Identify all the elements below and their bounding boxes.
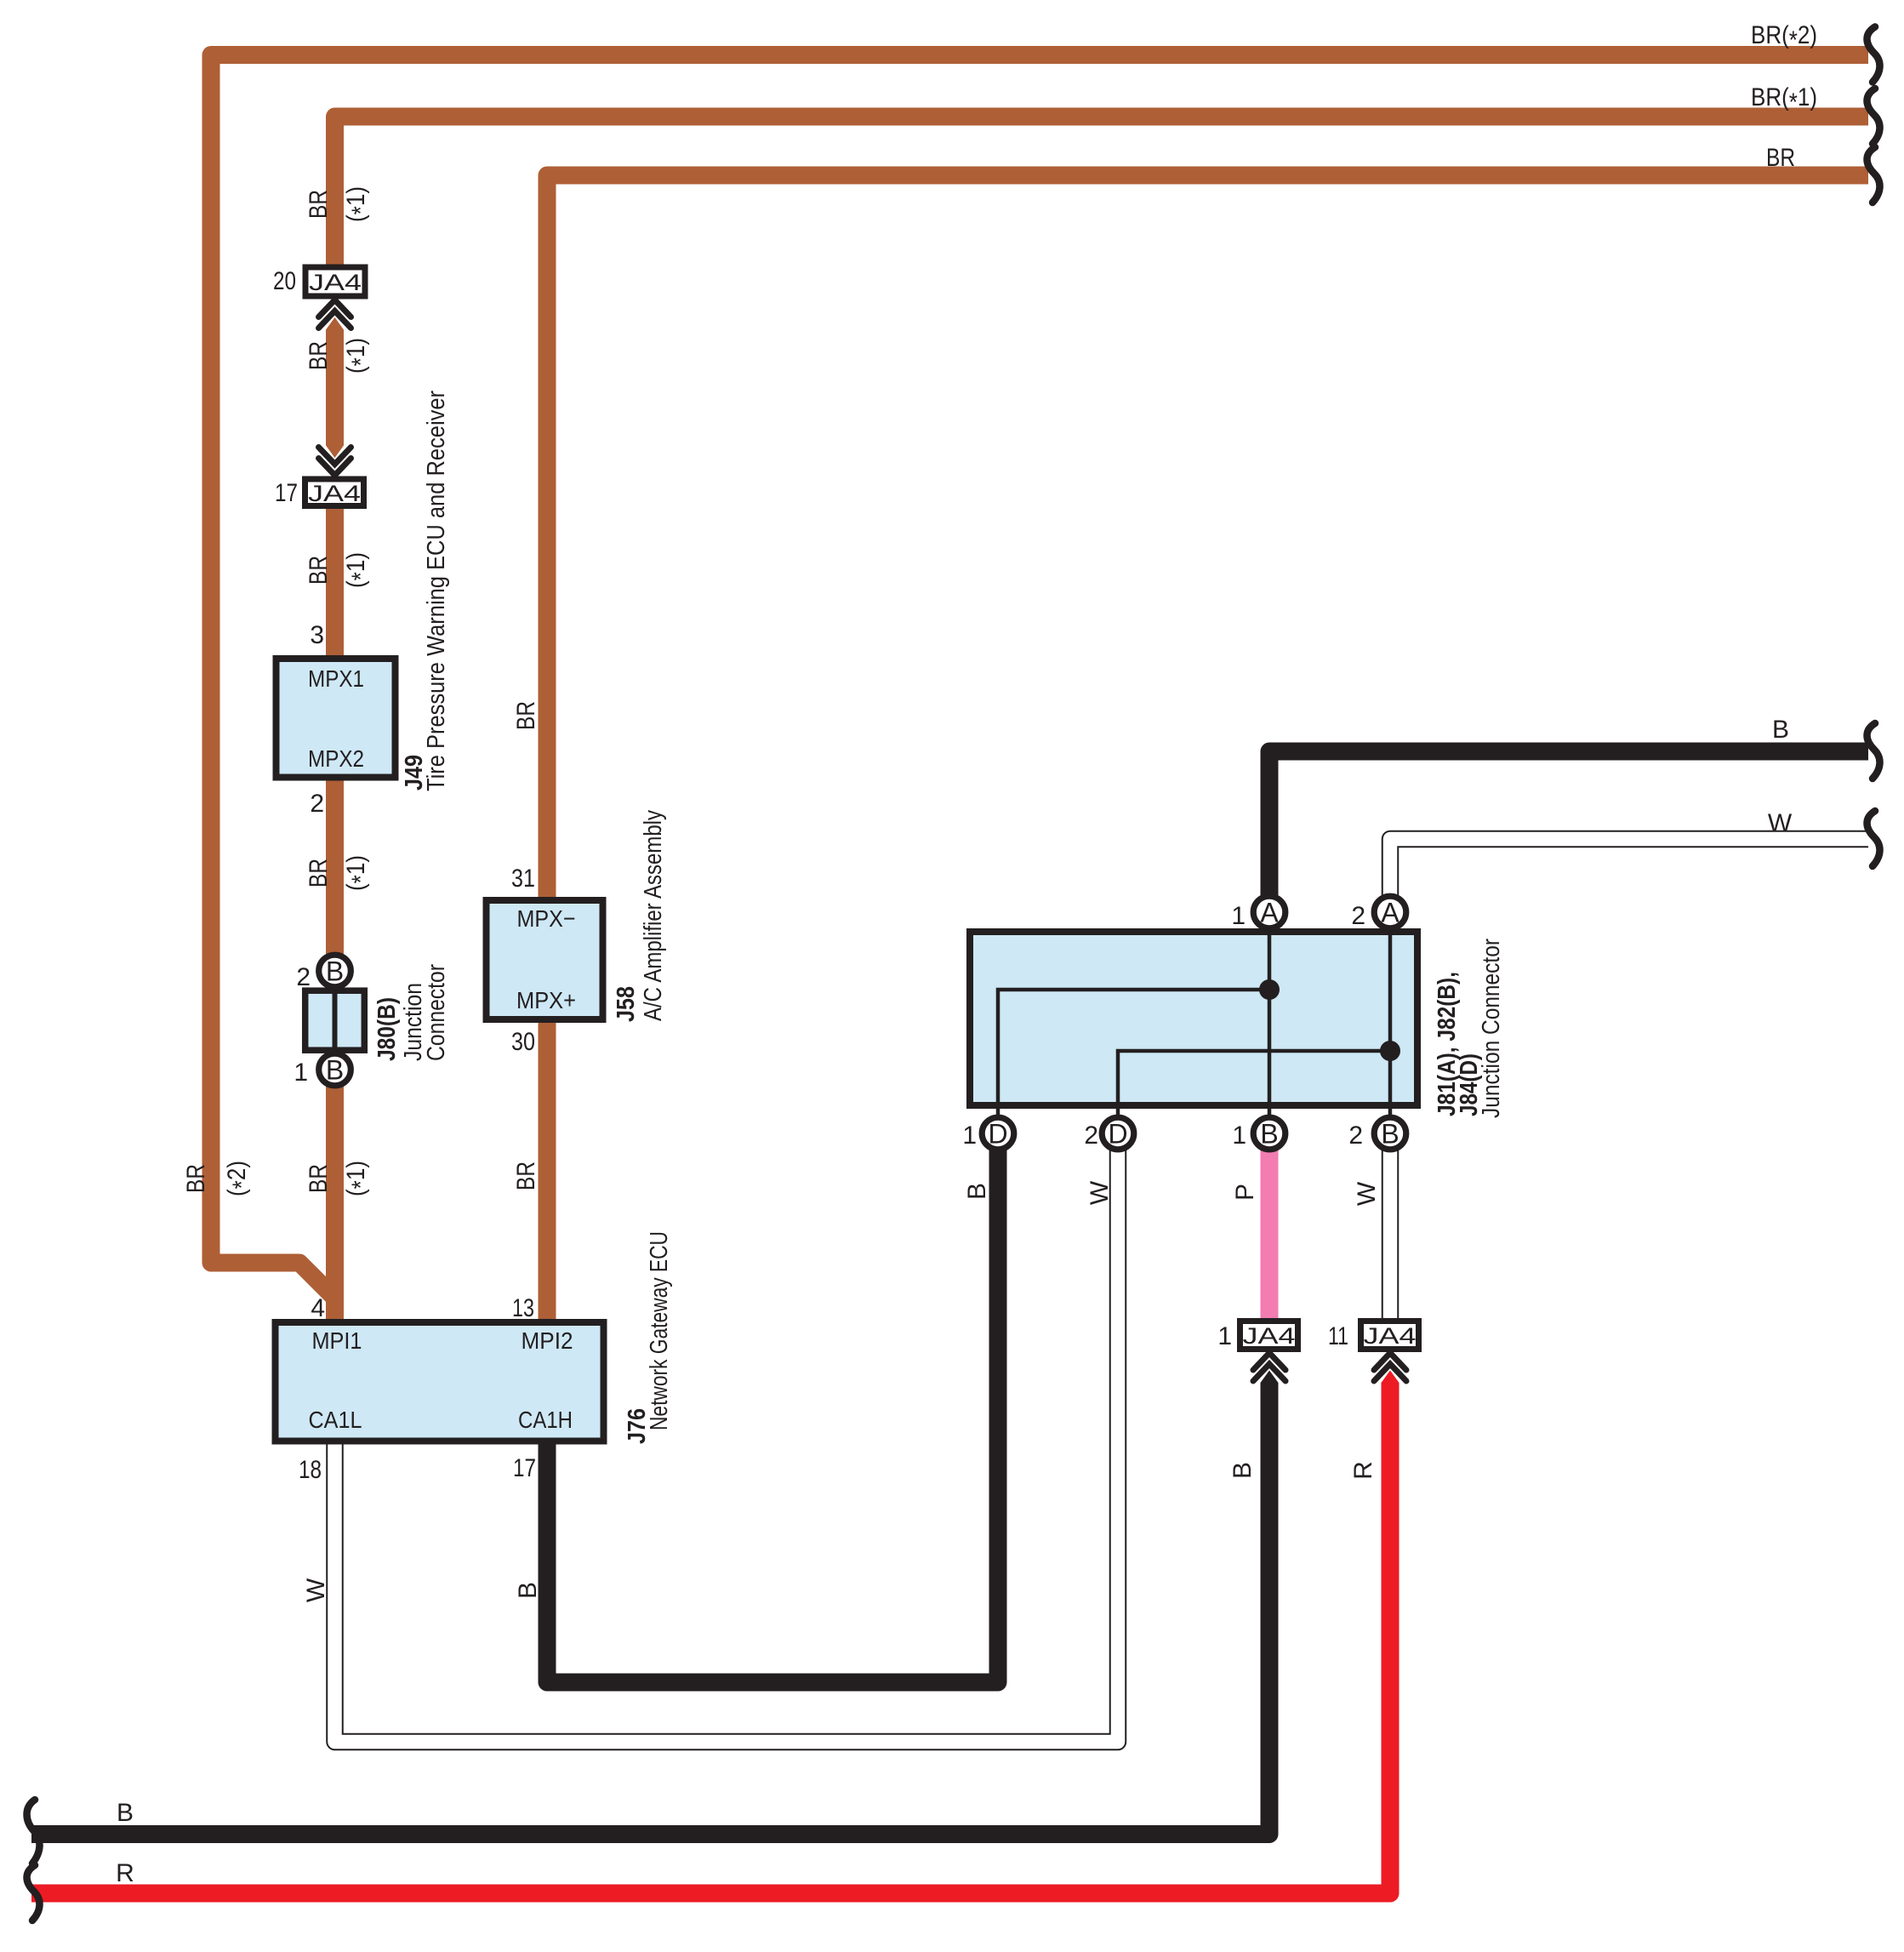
svg-text:20: 20 (273, 267, 296, 295)
svg-text:B: B (1228, 1462, 1257, 1479)
svg-text:J80(B): J80(B) (373, 997, 401, 1061)
svg-text:J58: J58 (613, 986, 640, 1022)
squiggle end B right (1867, 723, 1880, 779)
svg-text:B: B (514, 1582, 542, 1599)
svg-text:Network Gateway ECU: Network Gateway ECU (646, 1231, 673, 1430)
svg-text:2: 2 (310, 790, 324, 818)
svg-text:B: B (117, 1799, 134, 1827)
svg-text:W: W (1353, 1181, 1381, 1206)
svg-text:B: B (963, 1183, 991, 1200)
squiggle end W right (1867, 811, 1880, 866)
terminal 2 B (1374, 1117, 1406, 1150)
ECU J49 Tire Pressure Warning ECU and Receiver (276, 659, 396, 778)
svg-text:Junction Connector: Junction Connector (1478, 939, 1505, 1118)
svg-text:1: 1 (1231, 902, 1246, 930)
wire R bottom from left edge up to 11 JA4 (31, 1382, 1390, 1893)
svg-text:2: 2 (1084, 1122, 1098, 1150)
svg-text:JA4: JA4 (309, 270, 362, 295)
svg-text:A: A (1260, 898, 1279, 928)
terminal 2 D (1102, 1117, 1134, 1150)
connector box 11 JA4 (1361, 1321, 1419, 1350)
svg-text:1: 1 (1232, 1122, 1246, 1150)
terminal 1 B of J80 (319, 1053, 351, 1086)
svg-text:BR: BR (305, 1164, 333, 1193)
svg-text:D: D (988, 1119, 1007, 1150)
connector box 17 JA4 (305, 479, 364, 506)
wire W from junction terminal 2A to right edge (1390, 839, 1868, 902)
connector box 20 JA4 (305, 267, 365, 296)
wire BR(*2) from right edge to Network Gateway ECU pin 4 (211, 55, 1868, 1298)
svg-text:MPX+: MPX+ (516, 987, 576, 1013)
svg-text:JA4: JA4 (1364, 1323, 1417, 1349)
junction connector J81(A) J82(B) J84(D) (970, 931, 1417, 1133)
wire P from junction terminal 1B to 1 JA4 (1261, 1140, 1279, 1320)
svg-text:B: B (1381, 1119, 1399, 1150)
wire B from junction terminal 1A to right edge (1269, 751, 1868, 900)
svg-text:W: W (1768, 809, 1793, 837)
chevron pair above 17 JA4 (319, 446, 351, 477)
svg-text:MPX1: MPX1 (308, 665, 364, 692)
chevron pair below 1 JA4 (1253, 1352, 1285, 1383)
svg-text:CA1H: CA1H (518, 1407, 573, 1433)
svg-text:B: B (326, 1055, 344, 1086)
wire B from CA1H pin 17 to junction terminal 1D (547, 1132, 998, 1682)
ECU J76 Network Gateway ECU (276, 1322, 604, 1441)
svg-text:BR: BR (305, 190, 333, 219)
svg-text:13: 13 (512, 1294, 534, 1322)
svg-text:1: 1 (1217, 1322, 1232, 1350)
svg-text:B: B (1772, 716, 1789, 744)
svg-text:2: 2 (1351, 902, 1365, 930)
svg-text:4: 4 (311, 1294, 325, 1322)
svg-text:31: 31 (511, 865, 535, 893)
svg-text:17: 17 (513, 1454, 536, 1482)
terminal 1 B (1253, 1117, 1285, 1150)
svg-text:MPI1: MPI1 (312, 1327, 362, 1354)
svg-text:17: 17 (275, 479, 298, 507)
squiggle end BR(*1) (1867, 88, 1880, 144)
svg-text:BR: BR (512, 701, 540, 730)
svg-text:Connector: Connector (423, 964, 450, 1061)
squiggle end B bottom left (27, 1800, 40, 1864)
terminal 1 D (982, 1117, 1014, 1150)
svg-text:D: D (1108, 1119, 1127, 1150)
svg-text:MPI2: MPI2 (522, 1327, 573, 1354)
terminal 2 B of J80 (319, 955, 351, 987)
svg-text:1: 1 (962, 1122, 977, 1150)
svg-text:BR: BR (512, 1161, 540, 1190)
svg-text:A: A (1381, 898, 1399, 928)
terminal 2 A (1374, 896, 1406, 928)
svg-text:JA4: JA4 (308, 481, 361, 506)
svg-text:2: 2 (296, 963, 311, 991)
svg-text:18: 18 (299, 1456, 322, 1484)
svg-text:B: B (326, 956, 344, 987)
wire W from junction terminal 2B to 11 JA4 (1382, 1140, 1399, 1320)
svg-text:1: 1 (294, 1059, 308, 1087)
svg-text:B: B (1260, 1119, 1278, 1150)
svg-text:3: 3 (310, 621, 324, 649)
svg-text:MPX−: MPX− (517, 905, 576, 932)
svg-text:R: R (116, 1859, 134, 1887)
svg-text:11: 11 (1328, 1322, 1348, 1350)
svg-text:W: W (1086, 1180, 1114, 1205)
wire BR through J58 to pin 13 (547, 175, 1868, 1321)
svg-text:Tire Pressure Warning ECU and: Tire Pressure Warning ECU and Receiver (423, 391, 450, 791)
squiggle end BR (1867, 147, 1880, 203)
chevron pair below 11 JA4 (1374, 1352, 1406, 1383)
wire BR(*1) vertical trunk through JA4/J49/J80 to pin 4 (335, 117, 1869, 1321)
svg-text:2: 2 (1348, 1122, 1363, 1150)
svg-text:A/C Amplifier Assembly: A/C Amplifier Assembly (640, 810, 667, 1021)
squiggle end R bottom left (27, 1865, 40, 1921)
svg-text:BR: BR (305, 556, 333, 585)
svg-text:BR: BR (182, 1164, 210, 1193)
svg-text:CA1L: CA1L (309, 1407, 362, 1433)
connector box 1 JA4 (1240, 1321, 1298, 1350)
svg-text:BR: BR (305, 859, 333, 888)
terminal 1 A (1253, 896, 1285, 928)
svg-text:BR: BR (305, 341, 333, 370)
chevron pair below 20 JA4 (319, 300, 351, 330)
svg-text:BR: BR (1766, 144, 1795, 172)
svg-text:JA4: JA4 (1243, 1323, 1296, 1349)
svg-text:30: 30 (511, 1028, 535, 1056)
squiggle end BR(*2) (1867, 27, 1880, 83)
svg-text:R: R (1349, 1461, 1377, 1480)
svg-text:MPX2: MPX2 (308, 745, 364, 772)
A/C amplifier J58 (487, 900, 603, 1019)
wire W from CA1L pin 18 to junction terminal 2D (335, 1137, 1119, 1742)
svg-text:P: P (1231, 1184, 1259, 1201)
svg-text:W: W (302, 1578, 330, 1602)
wire B bottom from left edge up to 1 JA4 (31, 1382, 1269, 1835)
junction connector J80(B) (305, 987, 365, 1053)
